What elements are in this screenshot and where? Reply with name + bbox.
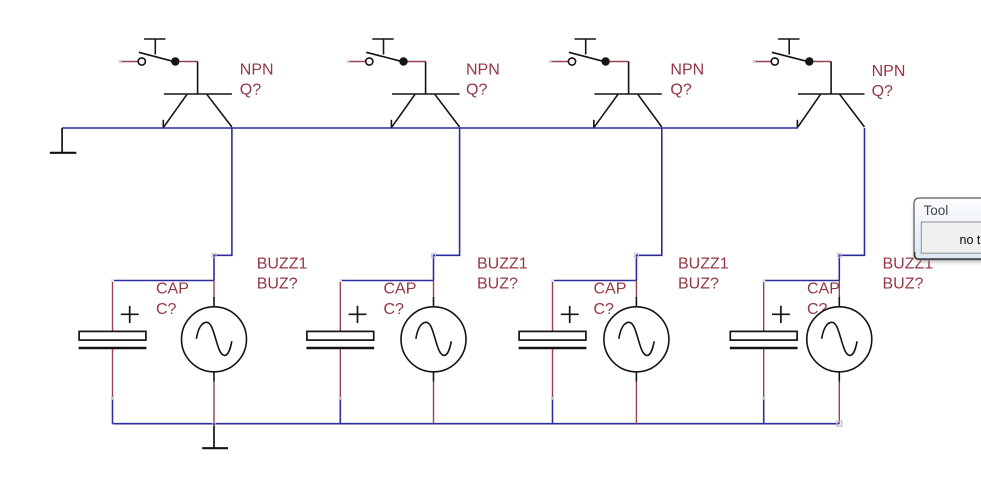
buzzer BUZ1 (182, 281, 247, 424)
wire collector drop 3 (636, 128, 661, 281)
label CAP C1 (156, 281, 189, 318)
tooltip window (914, 198, 981, 262)
label CAP C2 (384, 281, 417, 318)
svg-text:CAP: CAP (156, 281, 189, 298)
svg-text:CAP: CAP (384, 281, 417, 298)
wire bottom rail (113, 423, 840, 425)
wire collector drop 4 (839, 128, 864, 281)
label BUZZ1 BUZ1 (257, 255, 308, 292)
svg-text:BUZ?: BUZ? (257, 276, 298, 293)
buzzer BUZ3 (604, 281, 669, 424)
wire cap3 bottom (552, 398, 554, 423)
transistor Q2 (391, 62, 459, 128)
label NPN Q4 (872, 63, 906, 100)
wire cap-buzzer link 3 (553, 280, 637, 282)
svg-text:Q?: Q? (670, 82, 691, 99)
capacitor C4 (730, 281, 798, 400)
svg-text:NPN: NPN (872, 63, 906, 80)
ground GND2 (bottom) (202, 424, 228, 449)
label CAP C3 (594, 281, 627, 318)
switch SW4 (753, 39, 831, 66)
switch SW3 (549, 39, 629, 66)
svg-text:no tool: no tool (960, 233, 981, 247)
switch SW1 (119, 39, 198, 66)
capacitor C2 (306, 281, 374, 400)
label BUZZ1 BUZ3 (678, 255, 729, 292)
switch SW2 (347, 39, 426, 66)
svg-text:C?: C? (594, 301, 615, 318)
svg-text:BUZZ1: BUZZ1 (257, 255, 308, 272)
svg-text:Q?: Q? (466, 82, 487, 99)
wire cap1 bottom (112, 398, 114, 423)
label BUZZ1 BUZ4 (883, 255, 934, 292)
svg-text:Tool: Tool (924, 203, 949, 218)
wire cap-buzzer link 2 (340, 280, 433, 282)
svg-text:NPN: NPN (466, 62, 500, 79)
capacitor C3 (519, 281, 587, 400)
capacitor C1 (79, 281, 147, 400)
svg-text:BUZZ1: BUZZ1 (678, 255, 729, 272)
svg-text:NPN: NPN (670, 62, 704, 79)
label CAP C4 (807, 281, 840, 318)
buzzer BUZ2 (401, 281, 466, 424)
svg-text:BUZZ1: BUZZ1 (477, 255, 528, 272)
node markers (111, 253, 841, 282)
svg-text:NPN: NPN (240, 62, 274, 79)
svg-text:C?: C? (384, 301, 405, 318)
wire cap-buzzer link 4 (764, 280, 840, 282)
wire collector drop 2 (434, 128, 460, 281)
ground GND1 (top left) (50, 128, 77, 153)
label NPN Q3 (670, 62, 704, 99)
svg-text:BUZ?: BUZ? (883, 276, 924, 293)
transistor Q1 (163, 62, 232, 128)
wire cap4 bottom (763, 398, 765, 423)
svg-text:CAP: CAP (594, 281, 627, 298)
transistor Q3 (594, 62, 662, 128)
label NPN Q1 (240, 62, 274, 99)
wire collector drop 1 (214, 128, 232, 281)
label BUZZ1 BUZ2 (477, 255, 528, 292)
label NPN Q2 (466, 62, 500, 99)
wire cap-buzzer link 1 (113, 280, 215, 282)
svg-text:BUZ?: BUZ? (477, 276, 518, 293)
transistor Q4 (797, 62, 864, 128)
wire cap2 bottom (339, 398, 341, 423)
svg-text:C?: C? (156, 301, 177, 318)
svg-text:Q?: Q? (240, 82, 261, 99)
svg-text:CAP: CAP (807, 281, 840, 298)
svg-text:BUZ?: BUZ? (678, 276, 719, 293)
svg-text:Q?: Q? (872, 83, 893, 100)
wire top rail (62, 127, 798, 129)
buzzer BUZ4 (807, 281, 872, 427)
